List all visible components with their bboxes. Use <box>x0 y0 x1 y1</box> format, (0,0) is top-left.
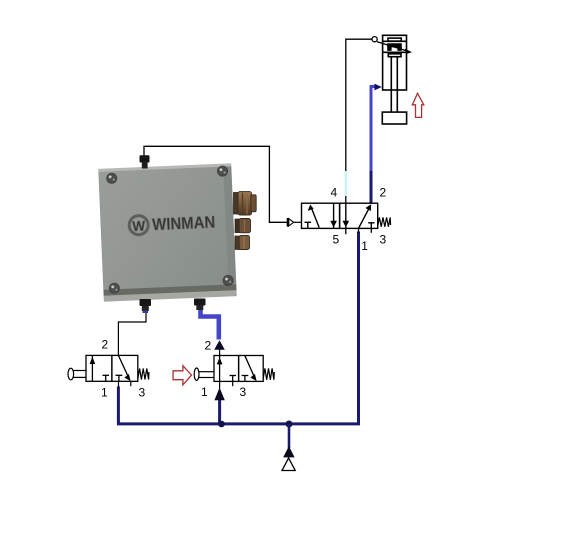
box bottom-right fitting <box>194 299 206 311</box>
right box arrowhead up (1-2) <box>365 204 371 211</box>
box top edge highlight <box>98 163 231 172</box>
left box exhaust arrowhead down <box>330 221 337 228</box>
svg-text:WINMAN: WINMAN <box>152 213 216 234</box>
V2 right box diagonal 2-3 <box>119 356 129 378</box>
box bottom dark edge <box>103 284 236 296</box>
flow arrow into cylinder port <box>374 84 381 91</box>
V3 spring <box>263 368 274 379</box>
V3 right box blocked port1 T <box>242 375 249 377</box>
piston lower cushion <box>388 54 401 57</box>
pilot to valve line <box>294 221 302 223</box>
junction dot at V3 riser <box>218 421 225 428</box>
V3 left box blocked T <box>230 375 237 377</box>
right box exhaust arrowhead down <box>343 221 350 228</box>
valve body right box <box>340 203 378 228</box>
V2 left box blocked T <box>103 374 110 376</box>
V2 port1 thin stub <box>118 381 120 387</box>
svg-text:1: 1 <box>361 239 368 253</box>
piston lower line <box>383 51 407 53</box>
junction dot at supply <box>286 421 293 428</box>
svg-text:4: 4 <box>331 186 338 200</box>
red right arrow at V3 button <box>173 366 191 385</box>
port 3 stub <box>370 228 372 232</box>
cylinder barrel <box>383 35 407 90</box>
svg-text:3: 3 <box>240 385 247 399</box>
V2 body left box <box>86 355 112 381</box>
port 1 stub <box>358 228 360 233</box>
svg-text:2: 2 <box>102 338 109 352</box>
rod foot plate <box>382 112 406 124</box>
piston rod right line <box>396 57 398 112</box>
valve body left box <box>302 203 340 228</box>
wire port4 of 5/2 valve to cylinder circle (black part) <box>346 39 372 203</box>
sensor diagonal arrow line <box>377 42 407 51</box>
cable gland large <box>234 192 257 215</box>
svg-text:2: 2 <box>205 339 212 353</box>
piston top cushion <box>388 38 401 41</box>
screw bottom-right <box>223 275 233 285</box>
screw top-right <box>217 166 227 176</box>
V3 port1 flow arrow up <box>214 388 224 401</box>
V3 port1 navy riser <box>218 399 221 424</box>
port 5 stub <box>345 228 347 234</box>
pilot triangle <box>289 219 294 226</box>
5/2 spring right <box>378 217 391 226</box>
V2 pushbutton <box>68 368 74 380</box>
supply flow arrow up <box>283 446 294 457</box>
wire from control box bottom-left to valve V2 port 2 <box>118 312 146 356</box>
tube port2 upper bright blue to cylinder <box>371 87 377 172</box>
right box flow diagonal 1-2 <box>359 207 370 228</box>
left box blocked port T <box>305 221 312 223</box>
compressed air source triangle <box>282 458 295 471</box>
V3 flow arrowhead up <box>217 357 223 364</box>
V3 port1 thin stub <box>219 381 221 388</box>
piston upper line <box>383 40 407 42</box>
V3 left box flow line 1-2 <box>219 356 221 382</box>
sensor arrowhead <box>405 49 412 54</box>
V3 diagonal arrowhead down <box>250 374 256 381</box>
left box arrowhead up (1-4) <box>308 205 314 211</box>
box bottom-left fitting <box>140 299 152 313</box>
blue tube control box to V3 port 2 <box>201 309 219 340</box>
V3 pushbutton <box>194 368 199 380</box>
box bottom lip <box>104 290 237 302</box>
WINMAN logo circle W <box>129 215 149 235</box>
piston magnet block <box>387 43 402 51</box>
wire port4 pale cyan segment <box>345 171 347 196</box>
svg-text:1: 1 <box>201 385 208 399</box>
box top fitting <box>140 155 150 168</box>
V2 right box blocked port1 T <box>116 374 123 376</box>
svg-text:5: 5 <box>333 233 340 247</box>
pilot bar <box>287 218 289 227</box>
V2 body right box <box>112 355 138 381</box>
supply bus navy: V2 port1 down, bus, up to 5/2 port1 <box>118 232 358 424</box>
svg-text:2: 2 <box>380 186 387 200</box>
svg-text:3: 3 <box>380 233 387 247</box>
V3 port2 flow arrow up <box>214 340 225 349</box>
svg-text:3: 3 <box>139 386 146 400</box>
sensor circle on cylinder <box>372 37 377 42</box>
left box exhaust line 2-3 <box>333 203 335 228</box>
cable gland lower <box>235 236 250 250</box>
V3 port2 thin stub <box>219 350 221 356</box>
box body face <box>98 163 236 299</box>
V3 body right box <box>239 356 264 382</box>
V2 diagonal arrowhead down <box>124 374 130 381</box>
svg-text:1: 1 <box>101 386 108 400</box>
left box flow diagonal 1-4 <box>312 208 320 227</box>
screw top-left <box>107 173 117 183</box>
V2 port3 stub <box>130 381 132 386</box>
cable gland middle <box>235 219 251 233</box>
V3 right box diagonal 2-3 <box>245 356 255 378</box>
V3 body left box <box>214 356 239 382</box>
supply stem <box>288 424 291 448</box>
box right side wall <box>223 164 236 293</box>
V3 port3 stub <box>232 381 234 386</box>
V2 flow arrowhead up <box>90 357 96 364</box>
V2 spring <box>138 369 149 380</box>
screw bottom-left <box>109 283 119 293</box>
piston rod left line <box>390 57 392 112</box>
right box blocked port T <box>368 222 374 224</box>
svg-text:W: W <box>132 218 146 234</box>
red up arrow at cylinder <box>412 93 424 117</box>
V2 left box flow line 1-2 <box>91 355 93 381</box>
right box exhaust line 4-5 <box>345 203 347 228</box>
wire from control box top to 5/2 pilot <box>144 146 287 222</box>
tube port2 of 5/2 valve, navy lower part <box>370 171 373 203</box>
